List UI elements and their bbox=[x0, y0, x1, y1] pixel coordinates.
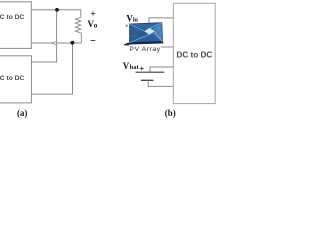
svg-text:C to DC: C to DC bbox=[0, 75, 24, 82]
svg-text:DC to DC: DC to DC bbox=[176, 50, 212, 59]
svg-text:bat: bat bbox=[130, 64, 140, 71]
svg-text:(a): (a) bbox=[17, 108, 28, 118]
svg-text:(b): (b) bbox=[165, 108, 176, 118]
svg-text:PV Array: PV Array bbox=[129, 46, 160, 53]
svg-text:in: in bbox=[133, 16, 139, 23]
svg-text:o: o bbox=[94, 21, 98, 29]
svg-text:C to DC: C to DC bbox=[0, 14, 24, 21]
